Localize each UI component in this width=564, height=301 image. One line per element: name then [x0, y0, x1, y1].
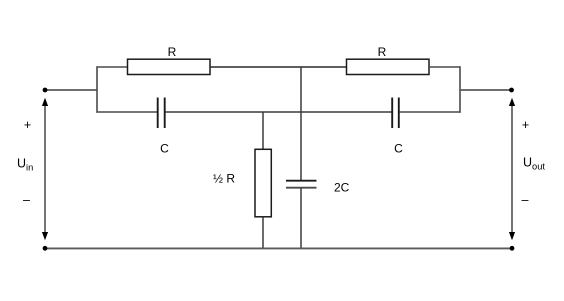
svg-text:2C: 2C	[334, 180, 350, 194]
wire: half-R branch lower	[262, 217, 264, 249]
node: input bottom (junction dot)	[43, 246, 48, 251]
svg-text:R: R	[378, 45, 387, 59]
svg-text:+: +	[522, 118, 529, 132]
svg-text:–: –	[23, 193, 30, 207]
wire: middle rail right segment	[400, 111, 461, 113]
wire: middle rail center segment	[166, 111, 393, 113]
svg-text:C: C	[160, 142, 169, 156]
wire: output lead right junction to node B	[460, 89, 511, 91]
Uout voltage arrow (double-headed, between output nodes)	[509, 98, 515, 240]
svg-text:R: R	[168, 45, 177, 59]
svg-text:½ R: ½ R	[213, 172, 235, 186]
node: output top (junction dot)	[509, 88, 514, 93]
wire: top rail right segment	[429, 66, 461, 68]
capacitor C3 (2C) plates	[286, 180, 317, 182]
capacitor C1 (left C) plates	[157, 98, 159, 129]
resistor R1 (left R)	[128, 59, 211, 74]
wire: bottom rail	[45, 247, 512, 249]
capacitor C2 (right C) plates	[391, 98, 393, 129]
wire: top rail left segment	[97, 66, 128, 68]
wire: left junction vertical	[96, 66, 98, 113]
wire: half-R branch upper (middle rail tap to resistor)	[262, 112, 264, 150]
svg-text:–: –	[522, 193, 529, 207]
node: output bottom (junction dot)	[510, 246, 515, 251]
svg-text:C: C	[394, 142, 403, 156]
Uin voltage arrow (double-headed, between input nodes)	[42, 98, 48, 240]
wire: middle rail left segment	[97, 111, 158, 113]
svg-text:+: +	[24, 118, 31, 132]
resistor R2 (right R)	[347, 59, 430, 74]
resistor R3 (½ R)	[255, 149, 271, 217]
node: input top (junction dot)	[43, 88, 48, 93]
wire: input lead node A to left junction	[45, 89, 97, 91]
wire: 2C branch upper (top rail tap down to top plate)	[300, 66, 302, 180]
wire: right junction vertical	[459, 66, 461, 113]
wire: 2C branch lower (bottom plate to bottom rail)	[300, 188, 302, 249]
wire: top rail middle segment	[210, 66, 347, 68]
